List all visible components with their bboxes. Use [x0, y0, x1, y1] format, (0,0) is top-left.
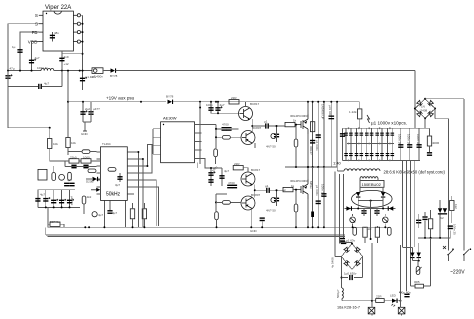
svg-text:IRG4?: IRG4? — [309, 146, 313, 155]
svg-text:2k2: 2k2 — [87, 195, 92, 199]
svg-text:µ1 630v: µ1 630v — [315, 140, 319, 151]
svg-text:47µ: 47µ — [10, 67, 15, 71]
svg-text:22R: 22R — [376, 295, 382, 299]
svg-text:1k2: 1k2 — [454, 204, 458, 209]
svg-text:µ1 400v: µ1 400v — [86, 75, 97, 79]
svg-text:1:40: 1:40 — [333, 161, 342, 166]
svg-text:4µ7: 4µ7 — [44, 82, 49, 86]
svg-text:100n 1k: 100n 1k — [398, 134, 402, 145]
svg-text:48v: 48v — [54, 31, 59, 35]
svg-text:22R: 22R — [234, 162, 240, 166]
svg-text:~220V: ~220V — [450, 270, 465, 276]
svg-text:150EBU02: 150EBU02 — [362, 182, 382, 187]
svg-text:LED: LED — [390, 293, 397, 297]
svg-text:4n9: 4n9 — [64, 55, 69, 59]
svg-text:1R0 UC: 1R0 UC — [37, 66, 49, 70]
svg-text:100n 1k: 100n 1k — [406, 134, 410, 145]
svg-text:µ47?: µ47? — [93, 107, 100, 111]
svg-text:10k: 10k — [53, 142, 58, 146]
svg-text:4µ7: 4µ7 — [35, 56, 40, 60]
svg-text:0R5: 0R5 — [414, 280, 420, 284]
svg-text:+12: +12 — [64, 62, 69, 66]
svg-text:BC817: BC817 — [251, 168, 261, 172]
svg-text:10µ 40v: 10µ 40v — [400, 291, 411, 295]
svg-text:500µ?: 500µ? — [336, 289, 340, 298]
svg-text:A2: A2 — [440, 216, 444, 220]
svg-text:IRG4PC30KD: IRG4PC30KD — [290, 179, 310, 183]
svg-text:S: S — [35, 13, 38, 18]
svg-text:D20B: D20B — [86, 180, 94, 184]
svg-text:16a K28-16-7: 16a K28-16-7 — [337, 306, 360, 310]
svg-text:4µ7: 4µ7 — [98, 213, 103, 217]
svg-text:IRG4PC30KD: IRG4PC30KD — [290, 114, 310, 118]
svg-text:22R: 22R — [231, 96, 237, 100]
svg-text:2µ2: 2µ2 — [85, 107, 90, 111]
svg-text:1N5406 UF: 1N5406 UF — [321, 104, 325, 120]
svg-text:4700: 4700 — [222, 123, 229, 127]
svg-text:GND: GND — [250, 229, 258, 233]
svg-text:100n 25: 100n 25 — [453, 224, 457, 235]
svg-text:TL494: TL494 — [102, 142, 111, 146]
svg-text:µ1 1000v x10pcs.: µ1 1000v x10pcs. — [371, 120, 407, 125]
svg-text:4x 5408: 4x 5408 — [331, 257, 335, 268]
svg-text:1k: 1k — [293, 119, 297, 123]
svg-text:µ1: µ1 — [264, 120, 268, 124]
svg-text:BY78: BY78 — [166, 95, 174, 99]
svg-text:4µ7: 4µ7 — [112, 211, 117, 215]
svg-text:MB3x: MB3x — [309, 181, 313, 189]
svg-text:BY78: BY78 — [110, 74, 118, 78]
svg-text:µ1 630v: µ1 630v — [315, 185, 319, 196]
svg-text:BC807: BC807 — [252, 126, 262, 130]
svg-text:1µ0 630v: 1µ0 630v — [344, 272, 357, 276]
svg-text:1·22k: 1·22k — [349, 110, 357, 114]
svg-text:5408: 5408 — [421, 109, 428, 113]
svg-text:400R: 400R — [432, 141, 440, 145]
svg-text:µ47/63: µ47/63 — [70, 196, 74, 206]
svg-text:+19V aux psu: +19V aux psu — [106, 96, 135, 101]
svg-text:BC807: BC807 — [251, 193, 261, 197]
svg-text:100n 1k: 100n 1k — [416, 134, 420, 145]
svg-text:4µ7: 4µ7 — [67, 178, 72, 182]
svg-text:3µ?: 3µ? — [115, 183, 120, 187]
svg-text:1k0: 1k0 — [367, 227, 372, 231]
svg-text:22k0: 22k0 — [70, 156, 77, 160]
svg-text:AE30W: AE30W — [163, 116, 177, 121]
svg-text:50kHz: 50kHz — [106, 191, 121, 197]
svg-text:56R 5w: 56R 5w — [50, 220, 61, 224]
svg-text:100p: 100p — [206, 103, 213, 107]
svg-text:µ1: µ1 — [265, 184, 269, 188]
svg-text:1µ: 1µ — [12, 45, 16, 49]
svg-text:4µ7: 4µ7 — [224, 169, 229, 173]
svg-text:1000: 1000 — [83, 156, 90, 160]
svg-text:4N? 50: 4N? 50 — [266, 209, 276, 213]
svg-text:4N? 50: 4N? 50 — [266, 145, 276, 149]
svg-text:GND: GND — [81, 132, 89, 136]
svg-text:10k: 10k — [71, 141, 76, 145]
svg-text:1k: 1k — [291, 184, 295, 188]
svg-text:µ33 400: µ33 400 — [328, 105, 332, 116]
svg-text:100n 1kv: 100n 1kv — [321, 184, 325, 197]
svg-text:BC817: BC817 — [250, 102, 260, 106]
svg-text:Viper 22A: Viper 22A — [45, 5, 71, 11]
svg-text:4700: 4700 — [228, 181, 235, 185]
svg-text:4µ7: 4µ7 — [40, 193, 45, 197]
svg-text:4µ7: 4µ7 — [220, 103, 225, 107]
